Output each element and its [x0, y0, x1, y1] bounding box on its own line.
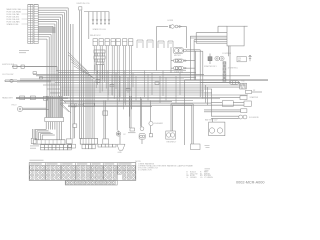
svg-text:W: W [200, 173, 202, 175]
svg-text:IGNITION COIL: IGNITION COIL [77, 3, 90, 5]
svg-text:METER: METER [174, 55, 181, 57]
svg-text:YELLOW: YELLOW [190, 173, 198, 175]
svg-text:REG/RECT: REG/RECT [167, 142, 178, 144]
svg-text:IGNITION SW: IGNITION SW [2, 64, 14, 66]
svg-text:SOLENOID: SOLENOID [249, 117, 259, 119]
svg-text:4 CONNECTOR: 4 CONNECTOR [138, 170, 152, 172]
svg-text:CLUTCH SW: CLUTCH SW [2, 74, 13, 76]
svg-text:COUPLER: COUPLER [222, 53, 232, 55]
svg-text:O2: O2 [123, 134, 126, 136]
svg-text:WHITE: WHITE [204, 173, 211, 175]
svg-text:BROWN: BROWN [204, 175, 212, 177]
svg-text:HI/LO: HI/LO [12, 105, 17, 107]
svg-text:BLUE: BLUE [190, 175, 195, 177]
svg-text:(TWISTED): (TWISTED) [228, 68, 238, 70]
svg-text:NOTE: NOTE [135, 161, 141, 163]
svg-text:GREEN: GREEN [190, 177, 197, 179]
svg-text:HORN: HORN [168, 20, 174, 22]
svg-text:GND: GND [118, 152, 123, 154]
svg-text:0002-MCR-A000: 0002-MCR-A000 [236, 181, 265, 185]
svg-text:TURN SIG: TURN SIG [174, 72, 184, 74]
svg-text:3 ROUTE CORRECTLY: 3 ROUTE CORRECTLY [138, 168, 159, 170]
svg-text:LT GREEN: LT GREEN [204, 177, 214, 179]
